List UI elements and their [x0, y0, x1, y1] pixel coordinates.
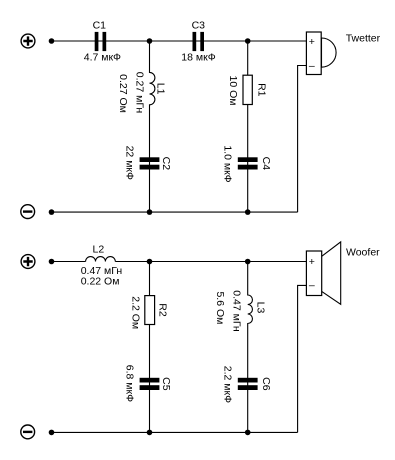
svg-text:C5: C5	[160, 377, 172, 391]
node B (junction of C1/C3/L1)	[147, 38, 153, 44]
node K (rail dot under C5)	[147, 430, 153, 436]
svg-text:C2: C2	[160, 157, 172, 171]
resistor R2	[129, 262, 168, 433]
node I (junction of L3)	[245, 259, 251, 265]
svg-text:1.0 мкФ: 1.0 мкФ	[222, 145, 234, 182]
svg-text:L2: L2	[93, 243, 105, 255]
minus terminal (tweeter input -)	[21, 205, 35, 219]
svg-text:C3: C3	[192, 20, 206, 32]
capacitor C3	[181, 20, 215, 64]
capacitor C1	[84, 20, 121, 64]
inductor L1	[117, 41, 166, 212]
node G (woofer top-left junction dot)	[49, 259, 55, 265]
node H (junction of L2/R2)	[147, 259, 153, 265]
svg-text:–: –	[309, 280, 315, 292]
node F (rail dot under R1)	[245, 209, 251, 215]
inductor L2	[81, 243, 123, 287]
node D (rail dot left)	[49, 209, 55, 215]
capacitor C6	[222, 366, 272, 403]
svg-text:C1: C1	[93, 20, 107, 32]
wire bottom rail (tweeter)	[52, 211, 298, 213]
svg-text:0.27 Ом: 0.27 Ом	[117, 74, 129, 113]
node A (top-left junction dot)	[49, 38, 55, 44]
resistor R1	[227, 41, 267, 212]
svg-text:22 мкФ: 22 мкФ	[124, 146, 136, 180]
wire woofer rail segment 2	[115, 261, 306, 263]
svg-text:18 мкФ: 18 мкФ	[181, 51, 215, 63]
svg-text:L3: L3	[254, 302, 266, 314]
woofer speaker symbol	[306, 242, 380, 304]
svg-text:10 Ом: 10 Ом	[227, 76, 239, 106]
inductor L3	[214, 262, 266, 433]
capacitor C4	[222, 145, 272, 182]
svg-text:+: +	[309, 256, 315, 268]
svg-text:+: +	[309, 36, 315, 48]
svg-text:0.22 Ом: 0.22 Ом	[81, 276, 120, 288]
svg-text:0.27 мГн: 0.27 мГн	[134, 72, 146, 114]
node E (rail dot under L1)	[147, 209, 153, 215]
minus terminal (woofer input -)	[21, 425, 35, 439]
svg-text:C4: C4	[260, 157, 272, 171]
node C (junction of C3/R1)	[245, 38, 251, 44]
svg-text:C6: C6	[260, 377, 272, 391]
svg-text:5.6 Ом: 5.6 Ом	[214, 291, 226, 324]
wire woofer rail segment 1	[52, 261, 86, 263]
svg-text:L1: L1	[154, 83, 166, 95]
tweeter speaker symbol	[306, 32, 380, 75]
svg-text:6.8 мкФ: 6.8 мкФ	[124, 365, 136, 402]
wire bottom rail (woofer)	[52, 431, 298, 433]
svg-text:–: –	[309, 60, 315, 72]
svg-text:Woofer: Woofer	[346, 246, 380, 258]
capacitor C5	[124, 365, 172, 402]
svg-text:2.2 Ом: 2.2 Ом	[129, 296, 141, 329]
node J (rail dot left)	[49, 430, 55, 436]
wire top rail	[52, 40, 307, 42]
svg-text:Twetter: Twetter	[346, 33, 381, 45]
svg-text:2.2 мкФ: 2.2 мкФ	[222, 366, 234, 403]
plus terminal (tweeter input +)	[21, 34, 35, 48]
plus terminal (woofer input +)	[21, 255, 35, 269]
wire woofer return	[298, 285, 307, 432]
node L (rail dot under C6)	[245, 430, 251, 436]
svg-text:R2: R2	[156, 303, 168, 317]
wire tweeter return	[298, 66, 307, 213]
capacitor C2	[124, 146, 172, 180]
svg-text:4.7 мкФ: 4.7 мкФ	[84, 51, 121, 63]
svg-text:R1: R1	[255, 83, 267, 97]
svg-text:0.47 мГн: 0.47 мГн	[231, 290, 243, 332]
